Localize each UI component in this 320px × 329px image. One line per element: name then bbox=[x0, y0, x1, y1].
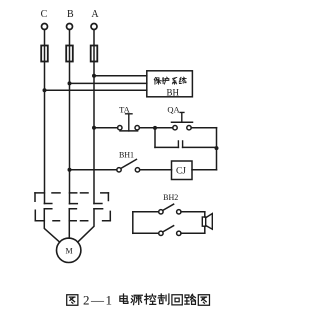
路 bbox=[185, 294, 196, 304]
svg-text:BH2: BH2 bbox=[163, 193, 178, 202]
护 bbox=[162, 77, 169, 84]
保 bbox=[154, 77, 161, 84]
svg-text:B: B bbox=[67, 9, 74, 20]
wire A to TA bbox=[94, 127, 118, 129]
node B tap bbox=[68, 81, 72, 85]
svg-text:BH1: BH1 bbox=[119, 151, 134, 160]
contact BH2 upper bbox=[159, 204, 181, 214]
wire BH2 bottom rail right bbox=[181, 232, 205, 234]
protection system box BH bbox=[147, 71, 193, 97]
图 (1) bbox=[67, 295, 78, 306]
回 bbox=[172, 295, 182, 305]
start button QA bbox=[172, 112, 193, 129]
wire right rail vertical bbox=[216, 128, 218, 170]
wire BH2 bottom rail left bbox=[133, 232, 159, 234]
wire BH1 to CJ coil bbox=[140, 169, 172, 171]
fuse FU1 bbox=[41, 46, 48, 62]
wire TA to QA node bbox=[139, 127, 155, 129]
wire phase B vertical bbox=[69, 30, 71, 204]
wire CJ coil to right rail bbox=[192, 169, 217, 171]
svg-text:QA: QA bbox=[167, 105, 180, 115]
contact BH1 bbox=[117, 159, 140, 172]
统 bbox=[179, 77, 186, 83]
fuse FU3 bbox=[91, 46, 98, 62]
制 bbox=[158, 294, 169, 304]
wire CJ aux branch down bbox=[154, 128, 156, 148]
wire pole2 lower bbox=[68, 209, 70, 239]
电 bbox=[120, 294, 128, 303]
terminal C bbox=[42, 24, 48, 30]
wire phase A vertical bbox=[93, 30, 95, 204]
wire pole1 lower bbox=[44, 209, 59, 242]
图 (2) bbox=[198, 295, 209, 306]
caption 图 2—1 电源控制回路图 bbox=[67, 293, 210, 308]
wire B to BH1 bbox=[70, 169, 117, 171]
terminal A bbox=[91, 24, 97, 30]
node BH1 row tap on phase B bbox=[68, 168, 72, 172]
svg-text:BH: BH bbox=[167, 88, 180, 98]
speaker horn bbox=[202, 212, 212, 234]
wire BH2 top rail right bbox=[181, 211, 205, 213]
node TA row tap on phase A bbox=[92, 126, 96, 130]
svg-text:A: A bbox=[91, 9, 99, 20]
svg-text:TA: TA bbox=[119, 105, 131, 115]
terminal B bbox=[67, 24, 73, 30]
wire pole3 lower bbox=[78, 209, 94, 242]
contactor coil CJ bbox=[172, 161, 193, 180]
wire B tap to protection box bbox=[70, 82, 147, 84]
wire A tap to protection box bbox=[94, 75, 147, 77]
svg-text:M: M bbox=[65, 246, 72, 255]
breaker DL linkage lower dashed row bbox=[35, 209, 110, 221]
stop button TA bbox=[118, 114, 140, 131]
wire QA to right rail bbox=[191, 127, 216, 129]
控 bbox=[145, 294, 156, 304]
wire BH2 top rail left bbox=[133, 211, 159, 213]
源 bbox=[131, 295, 142, 304]
fuse FU2 bbox=[66, 46, 73, 62]
wire BH2 left rail bbox=[132, 212, 134, 234]
motor M bbox=[56, 238, 80, 262]
contact BH2 lower bbox=[159, 226, 181, 236]
node A tap bbox=[92, 74, 96, 78]
node C tap bbox=[43, 88, 47, 92]
svg-text:2—1: 2—1 bbox=[83, 293, 114, 308]
node QA branch bbox=[153, 126, 157, 130]
label 保护系统 (drawn glyphs) bbox=[154, 77, 186, 84]
wire node to QA bbox=[155, 127, 173, 129]
svg-text:C: C bbox=[41, 9, 48, 20]
node right rail / CJ aux bbox=[215, 146, 219, 150]
系 bbox=[172, 77, 176, 84]
CJ auxiliary contact bbox=[155, 141, 217, 147]
breaker DL linkage upper dashed row bbox=[35, 193, 108, 204]
wire phase C vertical bbox=[44, 30, 46, 204]
wire C tap to protection box bbox=[45, 89, 147, 91]
svg-text:CJ: CJ bbox=[176, 167, 186, 177]
